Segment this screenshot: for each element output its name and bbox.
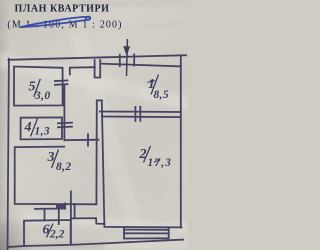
svg-text:2,2: 2,2 bbox=[49, 229, 65, 241]
svg-text:8,2: 8,2 bbox=[56, 161, 71, 173]
svg-text:8,5: 8,5 bbox=[154, 89, 170, 101]
svg-text:17,3: 17,3 bbox=[148, 157, 173, 169]
svg-text:1,3: 1,3 bbox=[35, 126, 50, 138]
svg-text:ПЛАН КВАРТИРИ: ПЛАН КВАРТИРИ bbox=[15, 4, 110, 15]
svg-text:6: 6 bbox=[43, 223, 50, 238]
svg-text:4: 4 bbox=[24, 120, 32, 135]
svg-text:(М 1 : 100, М 1 : 200): (М 1 : 100, М 1 : 200) bbox=[7, 20, 122, 31]
svg-text:3,0: 3,0 bbox=[34, 90, 50, 102]
